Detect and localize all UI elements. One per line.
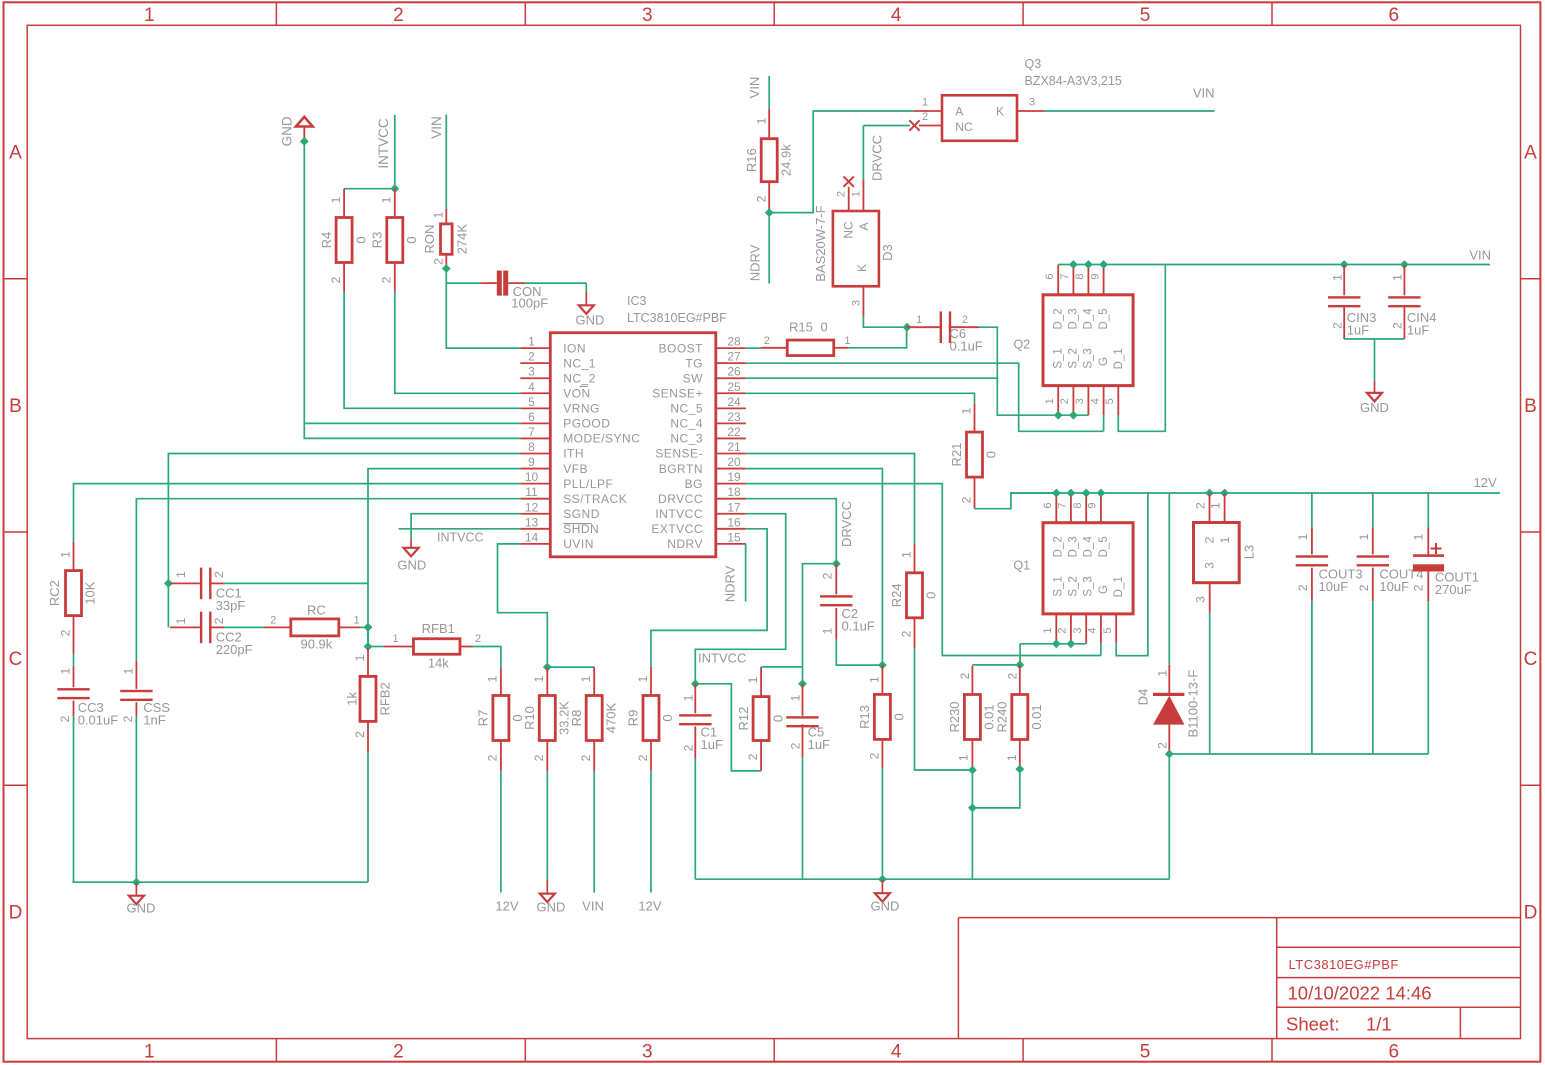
svg-text:2: 2 xyxy=(393,5,404,26)
svg-text:INTVCC: INTVCC xyxy=(437,531,484,545)
svg-text:21: 21 xyxy=(727,440,741,454)
svg-text:3: 3 xyxy=(642,5,653,26)
svg-text:6: 6 xyxy=(1389,1042,1400,1063)
svg-text:10/10/2022 14:46: 10/10/2022 14:46 xyxy=(1288,982,1432,1003)
svg-text:1: 1 xyxy=(636,675,650,682)
svg-text:NC_4: NC_4 xyxy=(670,417,703,431)
svg-text:14k: 14k xyxy=(428,656,449,671)
svg-text:2: 2 xyxy=(393,1042,404,1063)
svg-text:DRVCC: DRVCC xyxy=(870,135,885,181)
svg-text:R240: R240 xyxy=(994,701,1009,732)
svg-text:2: 2 xyxy=(58,629,72,636)
svg-text:2: 2 xyxy=(868,752,882,759)
svg-text:1uF: 1uF xyxy=(1407,323,1429,338)
svg-text:2: 2 xyxy=(329,276,343,283)
svg-text:2: 2 xyxy=(1156,742,1170,749)
svg-text:2: 2 xyxy=(58,715,72,722)
svg-text:1: 1 xyxy=(174,617,188,624)
svg-text:A: A xyxy=(1524,143,1537,164)
svg-text:8: 8 xyxy=(1072,503,1084,509)
svg-text:4: 4 xyxy=(891,1042,902,1063)
svg-text:K: K xyxy=(855,264,869,272)
svg-text:2: 2 xyxy=(353,731,367,738)
svg-text:3: 3 xyxy=(1029,97,1035,109)
svg-text:2: 2 xyxy=(636,754,650,761)
svg-text:G: G xyxy=(1098,585,1110,594)
svg-text:B1100-13-F: B1100-13-F xyxy=(1185,670,1200,738)
svg-text:0: 0 xyxy=(353,236,368,243)
svg-text:VIN: VIN xyxy=(582,899,604,914)
svg-text:1: 1 xyxy=(1391,274,1405,281)
svg-text:1: 1 xyxy=(1296,533,1310,540)
svg-text:12: 12 xyxy=(525,500,539,514)
svg-text:PGOOD: PGOOD xyxy=(563,417,610,431)
svg-text:4: 4 xyxy=(1087,627,1099,633)
svg-text:NC_1: NC_1 xyxy=(563,356,596,370)
svg-text:S_1: S_1 xyxy=(1052,576,1064,596)
svg-text:3: 3 xyxy=(1203,562,1217,569)
svg-text:SENSE-: SENSE- xyxy=(655,447,703,461)
svg-text:10K: 10K xyxy=(83,581,98,604)
svg-text:10uF: 10uF xyxy=(1319,579,1349,594)
svg-text:1: 1 xyxy=(850,191,862,197)
svg-text:4: 4 xyxy=(1089,398,1101,404)
svg-text:D3: D3 xyxy=(880,244,895,261)
svg-text:17: 17 xyxy=(727,500,741,514)
svg-text:1: 1 xyxy=(922,97,928,109)
svg-text:3: 3 xyxy=(850,300,862,306)
svg-text:1: 1 xyxy=(746,676,760,683)
svg-text:3: 3 xyxy=(528,365,535,379)
svg-text:0: 0 xyxy=(984,451,999,458)
svg-text:9: 9 xyxy=(528,455,535,469)
svg-text:7: 7 xyxy=(1057,503,1069,509)
svg-text:1: 1 xyxy=(353,615,359,627)
svg-text:8: 8 xyxy=(528,440,535,454)
svg-text:Q2: Q2 xyxy=(1014,338,1031,352)
svg-text:R230: R230 xyxy=(947,701,962,732)
svg-text:1: 1 xyxy=(1209,502,1223,509)
svg-text:IC3: IC3 xyxy=(627,294,647,308)
svg-text:BGRTN: BGRTN xyxy=(659,462,703,476)
svg-text:DRVCC: DRVCC xyxy=(839,501,854,547)
svg-text:1: 1 xyxy=(393,633,399,645)
svg-text:12V: 12V xyxy=(1474,475,1497,490)
svg-text:8: 8 xyxy=(1074,273,1086,279)
svg-text:1: 1 xyxy=(844,335,850,347)
svg-text:RON: RON xyxy=(422,225,437,254)
svg-text:2: 2 xyxy=(212,617,226,624)
svg-text:Q3: Q3 xyxy=(1025,57,1042,71)
svg-text:22: 22 xyxy=(727,425,741,439)
svg-text:100pF: 100pF xyxy=(511,296,548,311)
svg-text:VIN: VIN xyxy=(747,77,762,99)
svg-text:10: 10 xyxy=(525,470,539,484)
svg-text:1: 1 xyxy=(1005,754,1019,761)
svg-text:2: 2 xyxy=(1059,398,1071,404)
svg-text:GND: GND xyxy=(537,900,566,915)
svg-text:D_1: D_1 xyxy=(1113,348,1125,369)
svg-text:0.1uF: 0.1uF xyxy=(842,619,875,634)
svg-text:UVIN: UVIN xyxy=(563,537,594,551)
svg-text:2: 2 xyxy=(820,572,834,579)
svg-text:1: 1 xyxy=(868,676,882,683)
svg-text:BG: BG xyxy=(685,477,703,491)
svg-text:1: 1 xyxy=(820,627,834,634)
svg-text:R13: R13 xyxy=(857,705,872,729)
svg-text:1: 1 xyxy=(144,1042,155,1063)
svg-text:R4: R4 xyxy=(319,232,334,249)
svg-text:D_1: D_1 xyxy=(1113,576,1125,597)
svg-text:B: B xyxy=(1524,396,1537,417)
svg-text:1: 1 xyxy=(956,754,970,761)
svg-text:1: 1 xyxy=(1330,274,1344,281)
svg-text:1: 1 xyxy=(754,117,768,124)
svg-text:2: 2 xyxy=(1194,502,1208,509)
svg-text:1: 1 xyxy=(58,551,72,558)
svg-text:20: 20 xyxy=(727,455,741,469)
svg-text:2: 2 xyxy=(528,350,535,364)
svg-text:24.9k: 24.9k xyxy=(778,144,793,176)
svg-text:2: 2 xyxy=(1296,584,1310,591)
svg-text:1: 1 xyxy=(579,675,593,682)
svg-text:VFB: VFB xyxy=(563,462,588,476)
svg-text:NC_5: NC_5 xyxy=(670,402,703,416)
svg-text:TG: TG xyxy=(685,356,703,370)
svg-text:0: 0 xyxy=(892,713,907,720)
svg-text:5: 5 xyxy=(528,395,535,409)
svg-text:SW: SW xyxy=(683,371,704,385)
svg-text:1uF: 1uF xyxy=(808,737,830,752)
svg-text:ION: ION xyxy=(563,341,586,355)
svg-text:2: 2 xyxy=(432,258,446,265)
svg-text:GND: GND xyxy=(871,899,900,914)
svg-text:0: 0 xyxy=(821,320,828,335)
svg-text:2: 2 xyxy=(380,276,394,283)
svg-text:D_5: D_5 xyxy=(1098,536,1110,557)
svg-text:12V: 12V xyxy=(638,899,661,914)
svg-text:Q1: Q1 xyxy=(1013,559,1030,573)
svg-text:9: 9 xyxy=(1087,503,1099,509)
svg-text:1: 1 xyxy=(122,668,136,675)
svg-text:VIN: VIN xyxy=(1193,86,1215,101)
svg-text:11: 11 xyxy=(525,485,538,499)
svg-text:ITH: ITH xyxy=(563,447,584,461)
svg-text:0.01: 0.01 xyxy=(1029,704,1044,729)
svg-text:2: 2 xyxy=(789,742,803,749)
svg-text:K: K xyxy=(996,105,1004,119)
svg-text:R7: R7 xyxy=(476,710,491,727)
svg-text:2: 2 xyxy=(836,191,848,197)
svg-text:2: 2 xyxy=(1412,584,1426,591)
svg-text:6: 6 xyxy=(528,410,535,424)
svg-text:25: 25 xyxy=(727,380,741,394)
svg-text:10uF: 10uF xyxy=(1379,579,1409,594)
svg-text:0: 0 xyxy=(924,592,939,599)
svg-text:NC_2: NC_2 xyxy=(563,371,596,385)
svg-text:2: 2 xyxy=(1330,322,1344,329)
svg-text:90.9k: 90.9k xyxy=(300,637,332,652)
svg-text:D: D xyxy=(1524,902,1538,923)
svg-text:2: 2 xyxy=(960,496,974,503)
svg-text:1: 1 xyxy=(380,196,394,203)
svg-text:3: 3 xyxy=(642,1042,653,1063)
svg-text:4: 4 xyxy=(891,5,902,26)
svg-text:D_5: D_5 xyxy=(1098,308,1110,329)
svg-text:220pF: 220pF xyxy=(216,642,253,657)
svg-text:26: 26 xyxy=(727,365,741,379)
svg-text:1: 1 xyxy=(144,5,155,26)
svg-text:DRVCC: DRVCC xyxy=(658,492,703,506)
svg-text:5: 5 xyxy=(1140,5,1151,26)
svg-text:D_2: D_2 xyxy=(1052,536,1064,557)
svg-text:7: 7 xyxy=(1059,273,1071,279)
svg-text:VIN: VIN xyxy=(429,116,444,139)
svg-text:L3: L3 xyxy=(1242,545,1257,559)
svg-text:NDRV: NDRV xyxy=(667,537,703,551)
svg-text:2: 2 xyxy=(1357,584,1371,591)
svg-text:BOOST: BOOST xyxy=(658,341,703,355)
svg-text:D_4: D_4 xyxy=(1083,536,1095,558)
svg-text:C: C xyxy=(9,649,23,670)
svg-text:1: 1 xyxy=(353,654,367,661)
svg-text:GND: GND xyxy=(397,558,426,573)
svg-text:EXTVCC: EXTVCC xyxy=(651,522,703,536)
svg-text:2: 2 xyxy=(962,314,968,326)
svg-text:1uF: 1uF xyxy=(1347,323,1369,338)
svg-text:GND: GND xyxy=(280,116,295,146)
svg-text:2: 2 xyxy=(579,754,593,761)
svg-text:0.1uF: 0.1uF xyxy=(950,339,983,354)
svg-text:A: A xyxy=(955,105,963,119)
svg-text:BAS20W-7-F: BAS20W-7-F xyxy=(813,205,828,281)
svg-text:1: 1 xyxy=(174,571,188,578)
svg-text:6: 6 xyxy=(1042,503,1054,509)
svg-text:15: 15 xyxy=(727,530,741,544)
svg-text:1: 1 xyxy=(960,407,974,414)
svg-text:D: D xyxy=(9,902,23,923)
svg-text:GND: GND xyxy=(1360,400,1389,415)
svg-text:470K: 470K xyxy=(603,702,618,733)
svg-text:PLL/LPF: PLL/LPF xyxy=(563,477,613,491)
svg-text:S_3: S_3 xyxy=(1083,576,1095,596)
svg-text:19: 19 xyxy=(727,470,741,484)
svg-text:2: 2 xyxy=(212,571,226,578)
svg-text:R16: R16 xyxy=(744,148,759,172)
svg-text:D4: D4 xyxy=(1136,689,1151,706)
svg-text:2: 2 xyxy=(475,633,481,645)
svg-text:R10: R10 xyxy=(522,706,537,730)
svg-text:7: 7 xyxy=(528,425,535,439)
svg-text:1: 1 xyxy=(900,551,914,558)
svg-text:INTVCC: INTVCC xyxy=(655,507,703,521)
svg-text:18: 18 xyxy=(727,485,741,499)
svg-text:Sheet:: Sheet: xyxy=(1286,1013,1340,1034)
svg-text:3: 3 xyxy=(1072,627,1084,633)
svg-text:23: 23 xyxy=(727,410,741,424)
svg-text:2: 2 xyxy=(1391,322,1405,329)
svg-text:1k: 1k xyxy=(345,692,360,706)
svg-text:9: 9 xyxy=(1089,273,1101,279)
svg-text:1: 1 xyxy=(789,694,803,701)
svg-text:2: 2 xyxy=(764,335,770,347)
svg-text:6: 6 xyxy=(1044,273,1056,279)
svg-text:SGND: SGND xyxy=(563,507,600,521)
svg-text:1: 1 xyxy=(432,211,446,218)
svg-text:D_2: D_2 xyxy=(1052,308,1064,329)
svg-text:C: C xyxy=(1524,649,1538,670)
svg-text:NDRV: NDRV xyxy=(748,244,763,281)
svg-text:S_2: S_2 xyxy=(1068,576,1080,596)
svg-text:GND: GND xyxy=(576,312,605,327)
svg-text:VRNG: VRNG xyxy=(563,402,600,416)
svg-text:5: 5 xyxy=(1104,398,1116,404)
svg-text:LTC3810EG#PBF: LTC3810EG#PBF xyxy=(1289,957,1399,972)
svg-text:SENSE+: SENSE+ xyxy=(652,386,703,400)
svg-text:12V: 12V xyxy=(495,899,518,914)
svg-text:1: 1 xyxy=(1156,670,1170,677)
svg-text:R9: R9 xyxy=(626,710,641,727)
svg-text:NC_3: NC_3 xyxy=(670,432,703,446)
svg-text:G: G xyxy=(1098,357,1110,366)
svg-text:2: 2 xyxy=(486,754,500,761)
svg-text:0.01uF: 0.01uF xyxy=(78,713,119,728)
svg-text:INTVCC: INTVCC xyxy=(698,651,746,666)
svg-text:LTC3810EG#PBF: LTC3810EG#PBF xyxy=(627,311,727,325)
svg-text:RC2: RC2 xyxy=(47,580,62,606)
svg-text:1: 1 xyxy=(1044,398,1056,404)
svg-text:2: 2 xyxy=(121,715,135,722)
svg-text:2: 2 xyxy=(270,615,276,627)
svg-text:R21: R21 xyxy=(949,443,964,467)
svg-text:VON: VON xyxy=(563,386,591,400)
svg-text:RC: RC xyxy=(307,603,326,618)
svg-text:1: 1 xyxy=(486,675,500,682)
svg-text:R3: R3 xyxy=(369,232,384,249)
svg-text:2: 2 xyxy=(532,754,546,761)
svg-text:1: 1 xyxy=(528,335,535,349)
svg-text:1: 1 xyxy=(58,668,72,675)
svg-text:5: 5 xyxy=(1140,1042,1151,1063)
svg-text:2: 2 xyxy=(958,672,972,679)
svg-text:2: 2 xyxy=(1057,627,1069,633)
svg-text:274K: 274K xyxy=(454,224,469,255)
svg-text:NC: NC xyxy=(955,120,973,134)
svg-text:RFB2: RFB2 xyxy=(378,682,393,715)
svg-text:R12: R12 xyxy=(736,707,751,731)
svg-text:SS/TRACK: SS/TRACK xyxy=(563,492,627,506)
svg-text:B: B xyxy=(9,396,22,417)
svg-text:1: 1 xyxy=(1218,536,1232,543)
svg-text:1: 1 xyxy=(329,196,343,203)
svg-text:D_3: D_3 xyxy=(1068,308,1080,329)
svg-text:BZX84-A3V3,215: BZX84-A3V3,215 xyxy=(1025,74,1122,88)
svg-text:2: 2 xyxy=(754,195,768,202)
svg-text:28: 28 xyxy=(727,335,741,349)
svg-text:VIN: VIN xyxy=(1469,248,1491,263)
svg-text:R8: R8 xyxy=(569,710,584,727)
svg-text:0: 0 xyxy=(660,714,675,721)
svg-text:33pF: 33pF xyxy=(216,598,246,613)
svg-text:D_4: D_4 xyxy=(1083,308,1095,330)
svg-text:2: 2 xyxy=(922,111,928,123)
svg-text:GND: GND xyxy=(127,901,156,916)
svg-text:1: 1 xyxy=(532,675,546,682)
svg-text:1uF: 1uF xyxy=(701,737,723,752)
svg-text:16: 16 xyxy=(727,515,741,529)
svg-text:2: 2 xyxy=(681,744,695,751)
svg-text:1nF: 1nF xyxy=(143,713,165,728)
svg-text:MODE/SYNC: MODE/SYNC xyxy=(563,432,640,446)
svg-text:1: 1 xyxy=(681,694,695,701)
svg-text:5: 5 xyxy=(1102,627,1114,633)
svg-text:A: A xyxy=(857,222,871,230)
svg-text:6: 6 xyxy=(1389,5,1400,26)
svg-text:NDRV: NDRV xyxy=(722,565,737,602)
svg-text:13: 13 xyxy=(525,515,539,529)
svg-text:14: 14 xyxy=(525,530,539,544)
svg-text:NC: NC xyxy=(841,221,855,239)
svg-text:1: 1 xyxy=(916,314,922,326)
svg-text:27: 27 xyxy=(727,350,741,364)
svg-text:1: 1 xyxy=(1357,533,1371,540)
svg-text:24: 24 xyxy=(727,395,741,409)
svg-text:S_1: S_1 xyxy=(1052,348,1064,368)
svg-text:INTVCC: INTVCC xyxy=(376,118,391,169)
svg-text:2: 2 xyxy=(1203,536,1217,543)
svg-text:4: 4 xyxy=(528,380,535,394)
svg-text:RFB1: RFB1 xyxy=(422,621,455,636)
svg-text:1/1: 1/1 xyxy=(1366,1013,1392,1034)
svg-text:R15: R15 xyxy=(789,320,813,335)
svg-text:3: 3 xyxy=(1194,596,1208,603)
svg-text:A: A xyxy=(9,143,22,164)
svg-text:2: 2 xyxy=(900,630,914,637)
svg-text:1: 1 xyxy=(1042,627,1054,633)
svg-text:S_2: S_2 xyxy=(1068,348,1080,368)
svg-text:0: 0 xyxy=(770,715,785,722)
svg-text:0: 0 xyxy=(404,236,419,243)
svg-text:S_3: S_3 xyxy=(1083,348,1095,368)
svg-text:3: 3 xyxy=(1074,398,1086,404)
svg-text:1: 1 xyxy=(1412,533,1426,540)
svg-text:D_3: D_3 xyxy=(1068,536,1080,557)
svg-text:2: 2 xyxy=(746,753,760,760)
svg-text:R24: R24 xyxy=(889,583,904,607)
svg-text:270uF: 270uF xyxy=(1435,582,1472,597)
svg-text:2: 2 xyxy=(1005,672,1019,679)
